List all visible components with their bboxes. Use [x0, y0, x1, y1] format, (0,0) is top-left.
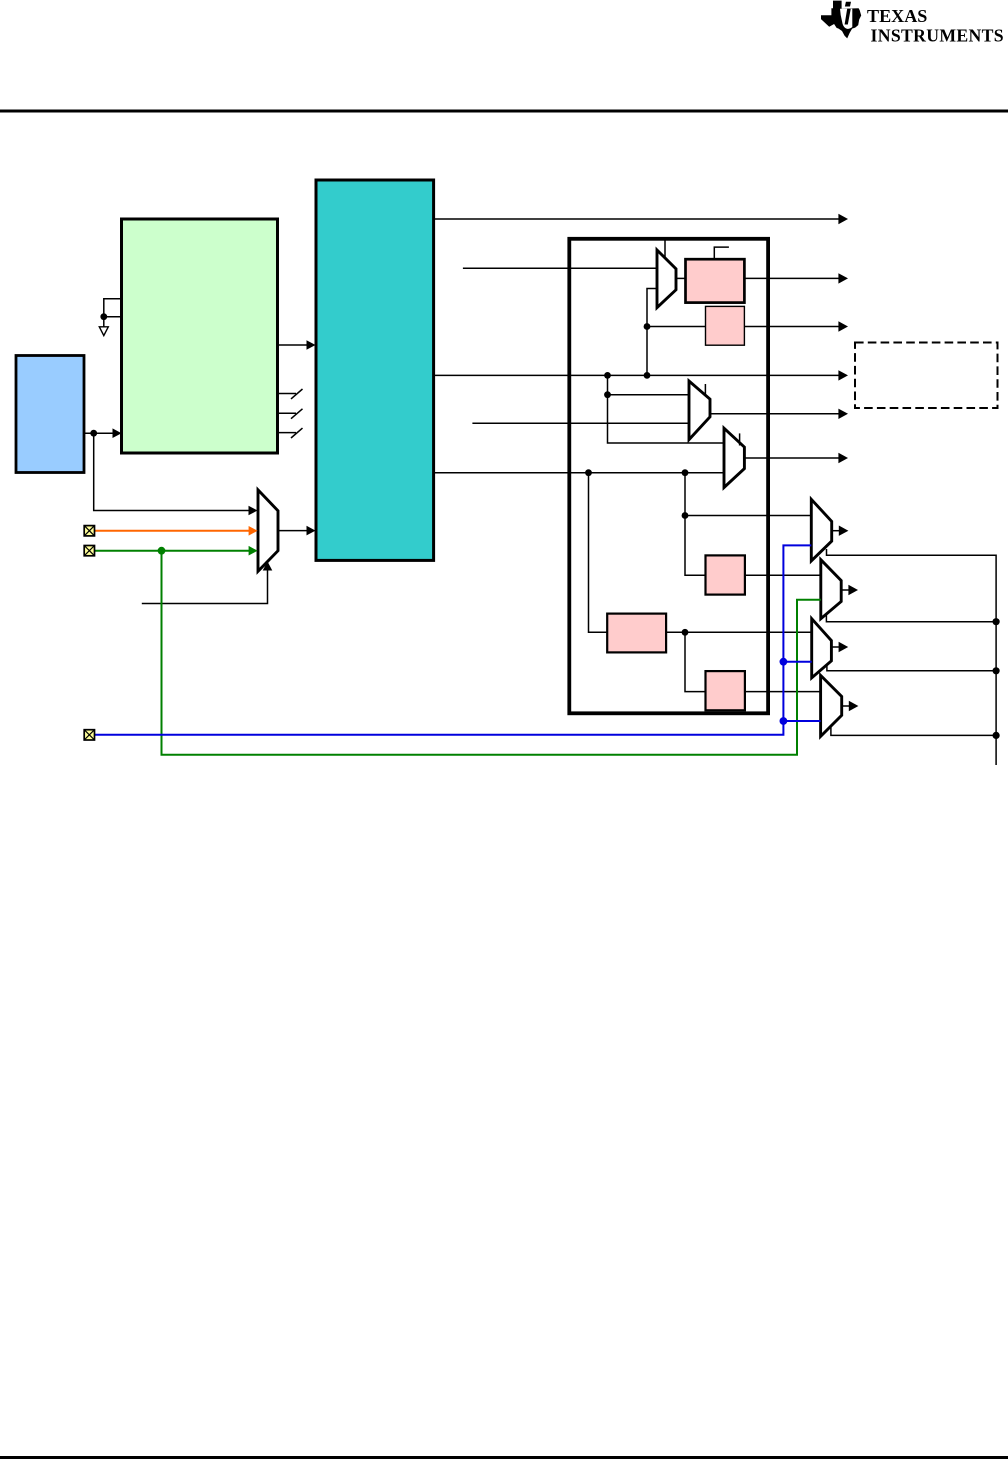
- svg-text:INSTRUMENTS: INSTRUMENTS: [871, 25, 1004, 45]
- svg-text:TEXAS: TEXAS: [867, 6, 927, 26]
